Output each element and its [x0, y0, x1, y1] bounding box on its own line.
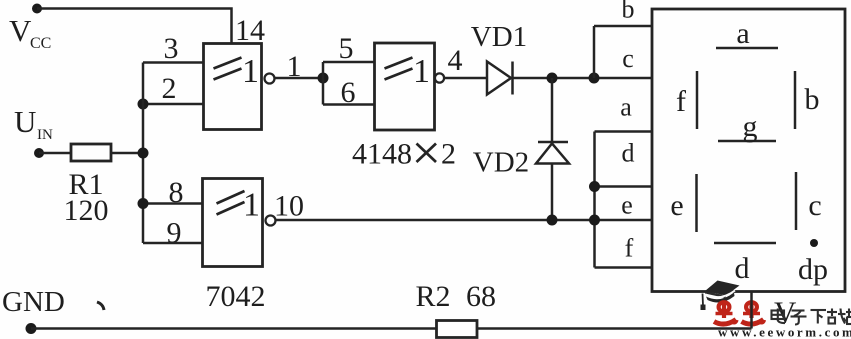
wire input bus vertical	[142, 63, 145, 244]
svg-text:IN: IN	[37, 127, 53, 143]
svg-text:a: a	[620, 93, 632, 122]
segment c	[795, 172, 798, 230]
wire b/c bracket vertical	[593, 26, 596, 78]
diode VD1	[487, 62, 511, 95]
wire a/d/f bracket vertical	[593, 132, 596, 268]
watermark bug char 1	[714, 301, 737, 324]
svg-text:f: f	[625, 234, 634, 263]
power terminal VCC	[32, 4, 42, 14]
svg-text:R2: R2	[415, 280, 450, 313]
resistor R2	[437, 321, 478, 338]
wire gate2 output to VD1	[444, 77, 487, 80]
junction node 1	[318, 73, 329, 84]
junction e net	[589, 215, 600, 226]
svg-text:b: b	[805, 83, 820, 116]
junction d net	[589, 181, 600, 192]
wire pin 3	[143, 61, 204, 64]
svg-text:a: a	[736, 17, 749, 50]
svg-text:2: 2	[162, 72, 177, 105]
svg-text:V: V	[9, 13, 32, 48]
wire pin d	[595, 185, 653, 188]
wire 5/6 bracket	[322, 62, 325, 105]
wire ground rail right	[477, 327, 752, 330]
watermark graduation cap	[701, 281, 740, 311]
input terminal UIN	[34, 148, 44, 158]
svg-text:9: 9	[167, 217, 182, 250]
svg-text:2: 2	[441, 138, 456, 171]
wire UIN to R1	[39, 152, 71, 155]
output bubble U1b	[435, 73, 444, 82]
svg-text:d: d	[622, 139, 635, 168]
junction VD2 top	[547, 73, 558, 84]
svg-text:1: 1	[242, 53, 259, 90]
svg-text:CC: CC	[30, 35, 51, 52]
segment f	[696, 71, 699, 129]
segment e	[695, 174, 698, 232]
svg-text:d: d	[735, 252, 750, 285]
svg-text:1: 1	[413, 53, 430, 90]
ground terminal GND	[26, 323, 37, 334]
svg-text:1: 1	[287, 50, 302, 83]
wire VD2 cathode lead	[551, 164, 554, 221]
svg-text:c: c	[808, 189, 821, 222]
diode VD2	[538, 141, 568, 144]
wire pin 5	[323, 61, 375, 64]
svg-text:c: c	[622, 44, 634, 73]
svg-text:g: g	[743, 110, 758, 143]
svg-text:dp: dp	[798, 253, 828, 286]
watermark site name glyphs	[772, 309, 851, 325]
svg-text:4: 4	[448, 44, 463, 77]
or-gate U1b 7042	[375, 43, 435, 130]
svg-text:e: e	[670, 189, 683, 222]
junction VD2 bottom / e net	[547, 215, 558, 226]
svg-text:b: b	[622, 0, 635, 24]
wire pin 6	[323, 103, 375, 106]
wire pin 8	[143, 202, 203, 205]
svg-text:10: 10	[274, 190, 304, 223]
wire ground rail left	[31, 327, 437, 330]
junction pin8/bus	[138, 198, 149, 209]
segment d	[714, 242, 776, 245]
segment g	[718, 140, 776, 143]
wire pin a	[595, 130, 653, 133]
svg-text:www.eeworm.com: www.eeworm.com	[718, 325, 851, 339]
wire pin 9	[143, 242, 203, 245]
output bubble U1a	[265, 74, 275, 84]
svg-text:f: f	[676, 85, 686, 118]
svg-text:14: 14	[235, 14, 265, 47]
svg-text:5: 5	[339, 32, 354, 65]
output bubble U1c	[266, 216, 276, 226]
svg-text:120: 120	[64, 194, 109, 227]
wire VD1 to display b/c net	[513, 77, 653, 80]
junction b/c bracket	[589, 73, 600, 84]
7-segment display DS1	[652, 9, 845, 292]
segment b	[794, 71, 797, 129]
svg-text:e: e	[621, 191, 633, 220]
svg-text:4148: 4148	[352, 138, 412, 171]
display common pin wire	[750, 292, 753, 329]
watermark bug char 2	[742, 301, 765, 324]
wire node 10 / e net	[276, 219, 653, 222]
wire VCC rail to pin 14	[37, 9, 232, 44]
svg-text:VD2: VD2	[473, 147, 529, 179]
junction pin2/bus	[138, 99, 149, 110]
svg-text:GND: GND	[2, 286, 65, 318]
wire pin f	[595, 266, 653, 269]
wire pin b	[594, 25, 652, 28]
or-gate U1a 7042	[204, 44, 262, 130]
svg-text:U: U	[14, 104, 36, 139]
wire R1 to bus	[111, 152, 143, 155]
svg-text:7042: 7042	[206, 280, 266, 313]
or-gate U1c 7042	[203, 179, 263, 267]
stray comma mark	[97, 302, 104, 310]
svg-text:1: 1	[243, 187, 260, 224]
decimal point dp	[810, 239, 818, 247]
segment a	[716, 47, 778, 50]
wire gate1 output node 1	[275, 77, 324, 80]
junction UIN/bus	[138, 148, 149, 159]
svg-text:3: 3	[164, 32, 179, 65]
wire VD2 anode lead	[551, 78, 554, 142]
wire pin 2	[143, 103, 204, 106]
svg-text:68: 68	[466, 280, 496, 313]
svg-text:VD1: VD1	[471, 21, 527, 53]
resistor R1	[71, 144, 111, 161]
